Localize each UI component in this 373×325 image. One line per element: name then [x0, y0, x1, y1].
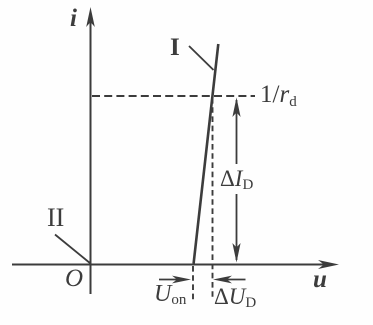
delta UD left arrow — [219, 279, 246, 281]
label II — [47, 203, 64, 233]
label 1/rd — [260, 81, 297, 111]
u axis arrowhead — [318, 260, 339, 269]
pointer line from label I — [189, 46, 214, 70]
line I (steep diode characteristic) — [194, 44, 219, 264]
dashed vertical at U point — [212, 98, 214, 300]
label I — [170, 34, 180, 62]
delta ID down arrow — [236, 194, 238, 260]
u axis (horizontal) — [12, 264, 332, 266]
label i — [70, 5, 77, 33]
label Uon — [154, 281, 186, 309]
delta ID up arrow — [236, 100, 238, 164]
line II (reverse branch diagonal) — [55, 235, 91, 264]
label delta UD — [214, 284, 256, 312]
i axis (vertical) — [90, 12, 92, 294]
label delta ID — [220, 166, 253, 194]
label O — [65, 265, 83, 293]
Uon right arrow — [159, 279, 186, 281]
i axis arrowhead — [86, 7, 95, 27]
label u — [313, 266, 327, 294]
dashed vertical at Uon point — [192, 266, 194, 300]
dashed horizontal at 1/rd level — [92, 95, 255, 97]
